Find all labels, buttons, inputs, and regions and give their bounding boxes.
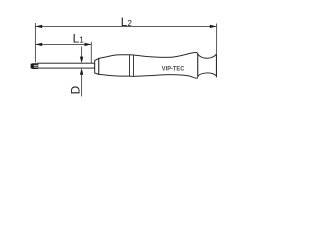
ferrule xyxy=(95,58,99,74)
screwdriver tip (dark serrated bit) xyxy=(31,63,38,69)
arrowhead L1 right xyxy=(85,43,92,46)
dimension line L2 xyxy=(35,25,216,27)
dimension D lower arrow (pointing up to shaft) xyxy=(81,75,83,97)
arrowhead L2 right xyxy=(210,25,217,28)
svg-text:D: D xyxy=(69,86,83,95)
dimension line L1 xyxy=(35,43,91,45)
collar ring line 1 xyxy=(129,55,131,76)
extension line right (handle end) xyxy=(216,24,218,54)
shaft (blade) xyxy=(38,63,95,68)
svg-text:VIP-TEC: VIP-TEC xyxy=(162,66,185,73)
rotating end cap (spool) xyxy=(198,54,217,76)
extension line left (tip end) xyxy=(34,23,36,63)
arrowhead L1 left xyxy=(35,43,42,46)
arrowhead L2 left xyxy=(35,25,42,28)
collar ring line 2 xyxy=(133,55,135,76)
extension line L1 right (through shaft) xyxy=(90,42,92,68)
dimension D upper arrow (pointing down to shaft) xyxy=(81,47,83,58)
handle body xyxy=(99,52,198,78)
end cap right face xyxy=(216,54,218,78)
